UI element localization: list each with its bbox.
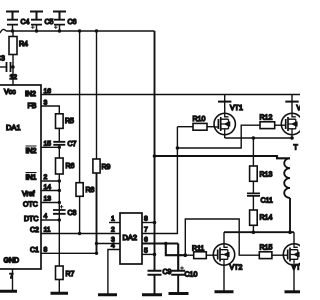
ground VT2 xyxy=(215,290,234,293)
svg-text:8: 8 xyxy=(44,247,48,254)
svg-text:FB: FB xyxy=(28,103,37,110)
top rail symbol for C5 xyxy=(30,12,43,20)
wire DA2 pin7 gate drive xyxy=(142,127,177,234)
svg-text:OTC: OTC xyxy=(23,202,38,209)
svg-text:R12: R12 xyxy=(260,115,273,122)
ground for R7 xyxy=(51,292,69,295)
resistor R15 xyxy=(259,252,283,259)
node source rail to R13 xyxy=(252,136,256,140)
svg-text:VT2: VT2 xyxy=(230,265,243,272)
capacitor C9 xyxy=(148,271,162,295)
resistor R7 xyxy=(56,220,64,293)
transistor VT1 xyxy=(214,95,236,139)
ground C10 xyxy=(169,292,189,295)
capacitor C10 xyxy=(171,244,185,294)
svg-text:R5: R5 xyxy=(65,118,74,125)
svg-text:C1: C1 xyxy=(30,247,39,254)
wire main vertical supply xyxy=(154,31,156,271)
svg-text:R9: R9 xyxy=(102,164,111,171)
svg-text:4: 4 xyxy=(111,243,115,250)
wire DA2 pin1 stub xyxy=(109,222,120,224)
node pin14 junction xyxy=(58,189,61,192)
svg-text:Vref: Vref xyxy=(22,191,35,198)
svg-text:C5: C5 xyxy=(45,19,54,26)
node R8 to C2 line xyxy=(78,232,81,235)
wire pin8 C1 line xyxy=(41,252,97,254)
svg-text:C6: C6 xyxy=(68,19,77,26)
wire DA2 pin4 to ground xyxy=(108,250,120,295)
svg-text:R8: R8 xyxy=(86,187,95,194)
capacitor C7 xyxy=(53,142,65,148)
svg-text:13: 13 xyxy=(44,196,52,203)
node pin4 junction xyxy=(58,218,61,221)
junction dots on top bus xyxy=(11,29,98,32)
wire DA2 pin3 xyxy=(97,243,121,245)
node drain rail T1 xyxy=(288,230,292,234)
node supply to DA2 pin8 xyxy=(153,221,157,225)
svg-text:5: 5 xyxy=(144,247,148,254)
node pin2 junction xyxy=(58,179,61,182)
svg-text:12: 12 xyxy=(10,74,18,81)
wire source rail VT1 VT3 xyxy=(225,137,292,139)
svg-text:11: 11 xyxy=(44,227,51,234)
node low gate split xyxy=(184,253,188,257)
wire pin11 C2 line to DA2 pin2 xyxy=(41,233,120,235)
svg-text:C7: C7 xyxy=(68,141,77,148)
node supply to DA2 pin5 xyxy=(153,253,157,257)
label IN2 bar xyxy=(26,146,37,155)
IC DA2 box xyxy=(120,213,142,264)
node C1 line end xyxy=(95,252,98,255)
top rail symbol for C6 xyxy=(53,12,66,20)
svg-text:R13: R13 xyxy=(260,172,273,179)
capacitor C6 xyxy=(54,20,65,31)
svg-text:R14: R14 xyxy=(260,215,273,222)
svg-text:C2: C2 xyxy=(30,227,39,234)
op-amp U1: IC DA1 box xyxy=(0,85,41,269)
svg-text:DA2: DA2 xyxy=(123,233,138,242)
svg-text:R10: R10 xyxy=(193,116,206,123)
capacitor C5 xyxy=(31,20,42,31)
resistor R11 xyxy=(185,252,213,259)
resistor R14 xyxy=(250,210,258,232)
node drain rail R14 xyxy=(252,230,256,234)
resistor R8 xyxy=(76,31,83,234)
wire drain rail VT2 VT4 xyxy=(224,231,294,233)
ground DA2 xyxy=(98,293,117,296)
wire pin3 FB xyxy=(41,106,59,114)
wire pin4 xyxy=(41,219,59,221)
ground VT4 xyxy=(285,290,301,293)
svg-text:C3: C3 xyxy=(0,56,5,63)
svg-text:VT4: VT4 xyxy=(292,265,301,272)
capacitor C3 xyxy=(0,62,13,72)
svg-text:C11: C11 xyxy=(261,198,273,205)
svg-text:DTC: DTC xyxy=(24,216,38,223)
wire DA2 pin5 xyxy=(142,253,155,255)
svg-text:1: 1 xyxy=(111,216,115,223)
svg-text:C9: C9 xyxy=(163,269,172,276)
svg-text:8: 8 xyxy=(144,216,148,223)
svg-text:R11: R11 xyxy=(192,246,204,253)
top rail symbol for C4 xyxy=(6,12,19,20)
svg-text:C4: C4 xyxy=(21,19,30,26)
wire pin2 xyxy=(41,180,59,182)
transformer T1 winding xyxy=(284,158,290,232)
node supply to rail156 xyxy=(153,154,157,158)
ground DA1 xyxy=(0,290,17,293)
node pin13 junction xyxy=(58,201,61,204)
svg-text:C8: C8 xyxy=(68,210,77,217)
wire pin15 xyxy=(41,146,59,148)
svg-text:VT1: VT1 xyxy=(230,105,243,112)
transistor VT4 xyxy=(283,232,304,291)
wire DA2 pin8 xyxy=(142,222,155,224)
svg-text:2: 2 xyxy=(111,227,115,234)
node gate drive split xyxy=(176,146,179,149)
wire pin 12 xyxy=(12,67,14,85)
resistor R5 xyxy=(56,114,64,142)
resistor R4 xyxy=(9,31,17,67)
svg-text:T: T xyxy=(294,145,299,152)
svg-text:2: 2 xyxy=(44,174,48,181)
capacitor C11 xyxy=(247,193,260,210)
svg-text:7: 7 xyxy=(144,227,148,234)
svg-text:4: 4 xyxy=(44,213,48,220)
wire pin14 xyxy=(41,190,59,192)
svg-text:IN2: IN2 xyxy=(25,91,36,98)
capacitor C8 xyxy=(53,205,66,214)
node R9 line to DA2 pin3 xyxy=(95,242,98,245)
svg-text:15: 15 xyxy=(44,141,52,148)
svg-text:C10: C10 xyxy=(185,272,198,279)
label IN1 bar xyxy=(26,173,37,182)
wire GND pin7 xyxy=(12,269,14,291)
wire DA2 pin6 xyxy=(142,242,178,244)
wire pin13 xyxy=(41,202,59,204)
wire top bus with entry hop xyxy=(0,29,155,33)
wire gate drive to VT3 xyxy=(177,125,260,148)
svg-text:R15: R15 xyxy=(260,245,273,252)
resistor R10 xyxy=(177,123,213,130)
wire pin16 rail to right edge xyxy=(41,94,300,96)
resistor R9 xyxy=(93,31,100,253)
transistor VT3 xyxy=(281,95,303,139)
node pin15 junction xyxy=(58,146,61,149)
resistor R6 xyxy=(56,147,64,220)
resistor R12 xyxy=(260,122,281,129)
svg-text:GND: GND xyxy=(4,258,20,265)
svg-text:VT3: VT3 xyxy=(297,105,301,112)
svg-text:R6: R6 xyxy=(66,163,75,170)
node pin6 branch xyxy=(164,242,168,246)
svg-text:DA1: DA1 xyxy=(6,123,21,132)
resistor R13 xyxy=(250,138,258,193)
svg-text:IN2: IN2 xyxy=(26,148,37,155)
svg-text:R4: R4 xyxy=(19,41,28,48)
svg-text:IN1: IN1 xyxy=(26,175,37,182)
svg-text:R7: R7 xyxy=(66,271,75,278)
node source rail VT3 xyxy=(290,136,294,140)
capacitor C4 xyxy=(7,20,18,31)
node pin12 junction xyxy=(11,65,14,68)
ground C9 xyxy=(142,293,162,296)
wire center tap rail xyxy=(155,156,291,158)
svg-text:Vcc: Vcc xyxy=(4,89,16,96)
transistor VT2 xyxy=(213,232,234,291)
wire pin6 branch to low side gates xyxy=(166,244,186,256)
wire low gate route over VT2 xyxy=(185,219,259,255)
